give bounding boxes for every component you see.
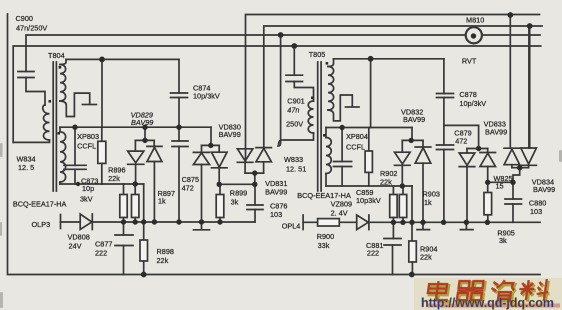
svg-text:472: 472 xyxy=(455,137,467,146)
svg-text:15: 15 xyxy=(496,182,504,191)
svg-text:BAV99: BAV99 xyxy=(219,130,241,139)
svg-text:47n: 47n xyxy=(287,106,299,115)
svg-text:33k: 33k xyxy=(318,241,330,250)
svg-text:12. 51: 12. 51 xyxy=(286,165,306,174)
svg-text:24V: 24V xyxy=(69,242,82,251)
svg-text:OLP3: OLP3 xyxy=(32,220,51,229)
svg-text:22k: 22k xyxy=(108,174,120,183)
svg-text:BAV99: BAV99 xyxy=(403,115,425,124)
svg-text:C878: C878 xyxy=(459,90,476,99)
svg-text:R899: R899 xyxy=(230,189,247,198)
svg-text:250V: 250V xyxy=(286,120,303,129)
svg-text:OPL4: OPL4 xyxy=(282,222,301,231)
svg-text:10p: 10p xyxy=(82,184,94,193)
svg-text:22k: 22k xyxy=(420,253,432,262)
svg-text:3k: 3k xyxy=(499,236,507,245)
svg-text:12. 5: 12. 5 xyxy=(18,163,34,172)
svg-text:BCQ-EEA17-HA: BCQ-EEA17-HA xyxy=(13,200,67,209)
svg-text:XP804: XP804 xyxy=(346,132,368,141)
svg-text:3k: 3k xyxy=(231,198,239,207)
svg-text:22k: 22k xyxy=(380,178,392,187)
svg-text:C877: C877 xyxy=(95,240,112,249)
svg-text:RVT: RVT xyxy=(462,57,477,66)
svg-text:47n/250V: 47n/250V xyxy=(16,24,47,33)
svg-text:W833: W833 xyxy=(284,155,303,164)
svg-text:T805: T805 xyxy=(309,50,326,59)
svg-text:VZ809: VZ809 xyxy=(331,199,353,208)
svg-text:22k: 22k xyxy=(157,256,169,265)
svg-text:BAV99: BAV99 xyxy=(265,188,287,197)
svg-text:10p3kV: 10p3kV xyxy=(356,196,381,205)
svg-text:CCFL: CCFL xyxy=(77,142,96,151)
svg-text:C900: C900 xyxy=(16,14,33,23)
svg-text:VD808: VD808 xyxy=(68,233,90,242)
svg-text:C901: C901 xyxy=(287,97,304,106)
svg-text:222: 222 xyxy=(95,249,107,258)
svg-text:http://www.qd-jdq.com: http://www.qd-jdq.com xyxy=(421,296,554,310)
svg-text:10p/3kV: 10p/3kV xyxy=(193,92,220,101)
svg-text:2. 4V: 2. 4V xyxy=(331,209,348,218)
svg-text:R898: R898 xyxy=(157,247,174,256)
svg-text:103: 103 xyxy=(530,207,542,216)
svg-text:R900: R900 xyxy=(317,232,334,241)
svg-text:XP803: XP803 xyxy=(77,132,99,141)
svg-text:222: 222 xyxy=(367,249,379,258)
svg-text:103: 103 xyxy=(270,210,282,219)
svg-text:1k: 1k xyxy=(158,197,166,206)
svg-text:472: 472 xyxy=(182,184,194,193)
svg-text:3kV: 3kV xyxy=(80,195,93,204)
svg-text:1k: 1k xyxy=(424,198,432,207)
svg-text:M810: M810 xyxy=(466,16,484,25)
svg-text:BAV99: BAV99 xyxy=(131,118,153,127)
svg-text:CCFL: CCFL xyxy=(346,143,365,152)
svg-text:T804: T804 xyxy=(48,51,65,60)
svg-text:BAV99: BAV99 xyxy=(485,128,507,137)
svg-text:BAV99: BAV99 xyxy=(533,185,555,194)
svg-text:10p/3kV: 10p/3kV xyxy=(459,99,486,108)
